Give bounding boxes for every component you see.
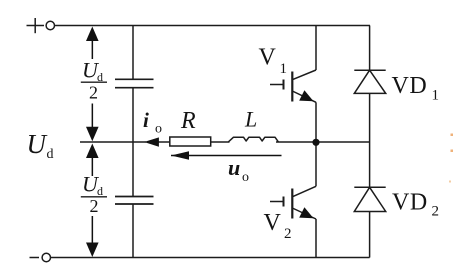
svg-text:VD: VD <box>392 73 428 99</box>
wire top bus <box>55 25 371 27</box>
svg-text:o: o <box>155 122 162 137</box>
stray scan speck 3 <box>449 181 451 183</box>
transistor V2 (IGBT) <box>270 186 316 219</box>
node A junction dot <box>312 139 319 146</box>
svg-text:R: R <box>180 108 196 134</box>
svg-text:V: V <box>264 210 282 236</box>
diode VD2 <box>354 187 385 211</box>
svg-text:2: 2 <box>284 226 292 242</box>
wire transistor branch node to V2 collector <box>315 142 317 186</box>
label Ud/2 bottom <box>81 172 107 217</box>
svg-text:d: d <box>47 147 54 162</box>
wire middle output right to diode branch <box>276 141 370 143</box>
wire diode branch below VD2 <box>369 212 371 258</box>
wire capacitor branch lower <box>132 204 134 258</box>
svg-text:VD: VD <box>392 190 428 216</box>
label V1 <box>259 45 288 78</box>
dimension arrow Ud/2 top <box>86 27 99 142</box>
wire capacitor branch upper <box>132 26 134 80</box>
svg-text:1: 1 <box>432 88 440 104</box>
svg-text:2: 2 <box>432 204 440 220</box>
top terminal circle <box>46 21 54 29</box>
svg-text:1: 1 <box>280 61 288 77</box>
plus terminal sign <box>27 18 45 33</box>
current arrow io on middle wire <box>144 137 159 146</box>
label VD2 <box>392 190 439 220</box>
stray scan speck 2 <box>451 150 454 153</box>
wire transistor branch V2 emitter to bottom bus <box>315 219 317 258</box>
wire diode branch VD1 to VD2 <box>369 93 371 187</box>
wire transistor branch top <box>315 26 317 71</box>
transistor V1 (IGBT) <box>270 70 316 102</box>
bottom terminal circle <box>42 253 50 261</box>
wire middle output left <box>80 141 146 143</box>
capacitor C2 <box>115 197 154 205</box>
dimension arrow Ud/2 bottom <box>86 144 99 258</box>
minus terminal sign <box>30 257 40 259</box>
svg-text:V: V <box>259 45 277 71</box>
wire bottom bus <box>51 257 370 259</box>
svg-text:U: U <box>27 129 48 159</box>
label Ud (source voltage) <box>27 129 54 162</box>
stray scan speck 1 <box>451 134 454 137</box>
label VD1 <box>392 73 440 104</box>
capacitor C1 <box>115 79 154 87</box>
resistor R <box>170 137 211 146</box>
label io <box>143 108 162 137</box>
wire middle between arrow and resistor <box>158 141 170 143</box>
voltage arrow uo <box>171 151 282 159</box>
wire between resistor and inductor <box>211 141 230 143</box>
wire right branch down from top bus <box>369 26 371 71</box>
label Ud/2 top <box>81 58 107 103</box>
svg-text:2: 2 <box>89 83 98 103</box>
svg-text:i: i <box>143 108 149 132</box>
label V2 <box>264 210 292 242</box>
inductor L <box>229 137 279 142</box>
svg-text:2: 2 <box>90 196 99 216</box>
svg-text:u: u <box>228 155 240 180</box>
label uo <box>228 155 249 185</box>
wire transistor branch emitter V1 to node <box>315 102 317 142</box>
wire capacitor branch middle <box>132 88 134 197</box>
svg-text:o: o <box>242 170 249 185</box>
svg-text:L: L <box>244 107 257 132</box>
diode VD1 <box>354 70 385 93</box>
